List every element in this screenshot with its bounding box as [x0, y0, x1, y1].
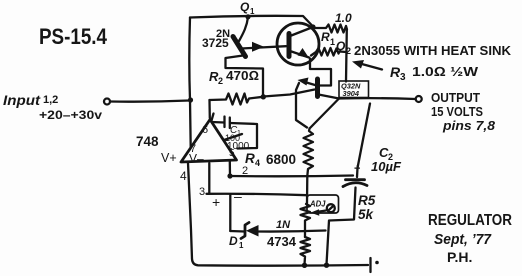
wire pin3 reference	[207, 163, 308, 195]
svg-text:4: 4	[255, 158, 260, 168]
zener D1 tap wire	[229, 195, 231, 232]
svg-text:PS-15.4: PS-15.4	[39, 24, 107, 49]
label Q2	[336, 39, 351, 56]
capacitor C2 10uF	[327, 104, 371, 265]
svg-text:6800: 6800	[266, 152, 296, 167]
label 748	[136, 134, 159, 149]
node rail R5	[302, 263, 307, 268]
potentiometer R5 5k	[301, 204, 311, 265]
svg-text:5k: 5k	[358, 207, 375, 222]
label R1	[321, 30, 335, 47]
svg-text:–: –	[234, 188, 242, 204]
svg-text:Input: Input	[3, 93, 41, 108]
node Q2 collector	[310, 24, 315, 29]
note 2N3055 heat sink	[354, 44, 511, 58]
svg-text:3725: 3725	[202, 36, 229, 50]
transistor Q1 2N3725	[226, 17, 287, 96]
node input rail junction	[188, 97, 193, 102]
annotation arrow R3	[352, 60, 382, 70]
label box Q3 2N3904	[339, 81, 369, 98]
title PS-15.4	[39, 24, 107, 49]
svg-text:pins 7,8: pins 7,8	[442, 118, 496, 133]
svg-text:2N3055 WITH HEAT SINK: 2N3055 WITH HEAT SINK	[354, 44, 511, 58]
svg-text:1: 1	[250, 7, 255, 16]
svg-text:1N: 1N	[276, 219, 291, 231]
svg-text:+: +	[212, 194, 220, 210]
label 1N4734	[267, 219, 297, 249]
svg-text:3904: 3904	[343, 89, 359, 98]
wire Q3 collector to Q1 base node	[264, 90, 315, 97]
label C2	[371, 145, 402, 174]
svg-text:REGULATOR: REGULATOR	[428, 212, 512, 229]
wire input to rail	[111, 101, 190, 102]
svg-text:+: +	[354, 163, 360, 175]
wire output	[339, 97, 416, 100]
wire R1/R3 to output node	[345, 30, 348, 82]
svg-text:1: 1	[330, 37, 335, 47]
svg-text:1.0Ω ½W: 1.0Ω ½W	[412, 64, 479, 79]
label R4 6800	[245, 151, 296, 168]
svg-text:1.0: 1.0	[335, 11, 352, 25]
transistor Q2 2N3055	[277, 23, 319, 65]
svg-text:2: 2	[218, 76, 223, 86]
label D1	[229, 234, 244, 250]
svg-text:3: 3	[199, 186, 205, 198]
svg-text:V+: V+	[161, 151, 177, 165]
svg-text:R: R	[245, 151, 255, 166]
output terminal	[416, 96, 422, 102]
svg-text:1: 1	[239, 241, 244, 250]
input terminal	[104, 99, 110, 105]
svg-text:V–: V–	[189, 152, 204, 166]
node R2/Q1 base	[261, 94, 266, 99]
capacitor C1	[212, 117, 257, 149]
label R3 value	[390, 64, 479, 83]
svg-text:3: 3	[400, 72, 406, 83]
label R2 470ohm	[209, 68, 259, 86]
wire top supply	[190, 16, 313, 27]
svg-text:4: 4	[180, 169, 187, 183]
signature REGULATOR	[428, 212, 512, 265]
svg-text:1,2: 1,2	[43, 94, 58, 106]
resistor R2 470	[210, 94, 264, 105]
svg-text:P.H.: P.H.	[447, 249, 472, 265]
svg-text:R5: R5	[358, 193, 376, 208]
label C1	[224, 125, 250, 152]
opamp pin labels	[161, 124, 248, 210]
resistor R3 emitter sense	[311, 48, 346, 56]
wire output to R4 top	[310, 99, 339, 129]
svg-text:ADJ: ADJ	[309, 200, 326, 209]
svg-text:D: D	[229, 234, 238, 248]
resistor R1 1.0	[315, 25, 347, 33]
label 2N3725	[202, 28, 230, 50]
pot ADJ box and wiper	[307, 195, 339, 216]
op-amp U1 748	[181, 100, 237, 162]
output label	[431, 91, 496, 133]
svg-text:470Ω: 470Ω	[226, 68, 259, 83]
node rail C2	[324, 263, 329, 268]
node pin2	[227, 173, 232, 178]
svg-text:Q: Q	[240, 0, 250, 14]
wire pin2 feedback	[230, 162, 353, 177]
svg-text:OUTPUT: OUTPUT	[431, 91, 480, 105]
label R5 5k	[358, 193, 376, 222]
svg-text:4734: 4734	[267, 234, 297, 249]
wire left rail	[189, 18, 190, 148]
input label	[3, 93, 102, 122]
label 1.0	[335, 11, 352, 25]
zener diode D1 1N4734	[230, 223, 325, 239]
wire V- to ground rail	[188, 163, 368, 266]
svg-text:+20–+30v: +20–+30v	[39, 108, 102, 122]
transistor Q3 2N3904	[296, 59, 339, 128]
svg-text:748: 748	[136, 134, 159, 149]
svg-text:6: 6	[202, 124, 208, 136]
ground rail end mark	[371, 258, 379, 272]
node Q1 collector	[245, 14, 250, 19]
resistor R4	[304, 129, 314, 204]
svg-text:15 VOLTS: 15 VOLTS	[431, 105, 483, 119]
svg-text:10µF: 10µF	[371, 159, 402, 174]
svg-text:Sept, ’77: Sept, ’77	[434, 231, 492, 248]
label Q1	[240, 0, 255, 16]
svg-text:R: R	[321, 30, 330, 44]
